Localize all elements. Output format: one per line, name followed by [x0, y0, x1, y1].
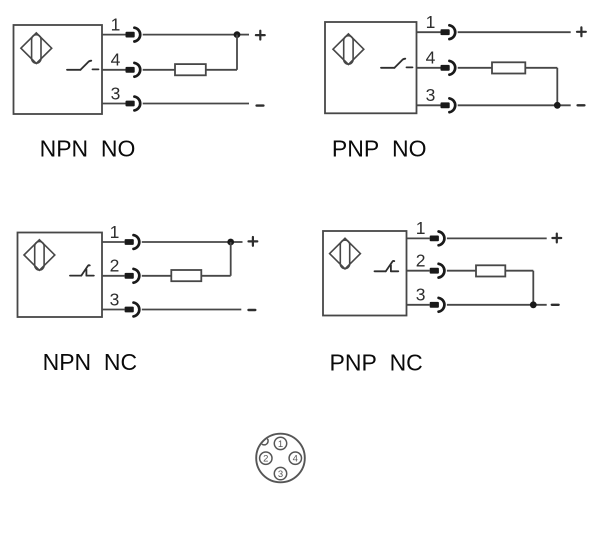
load resistor (PNP NC load)	[476, 265, 505, 276]
socket arc pin 4 (PNP NO)	[449, 61, 455, 75]
wire PNP NC load to dropper	[505, 270, 533, 272]
wire NPN NC pin3 to -	[142, 309, 242, 311]
wire PNP NO pin3 to -	[458, 104, 571, 106]
sensor box (NPN NC sensor)	[18, 233, 103, 318]
socket arc pin 2 (NPN NC)	[134, 269, 140, 283]
connector face pin 4	[289, 452, 301, 465]
svg-text:PNP NC: PNP NC	[330, 349, 423, 375]
wire PNP NO pin 3: box to plug	[417, 104, 441, 106]
svg-text:3: 3	[416, 285, 426, 305]
connector keying notch	[260, 437, 268, 445]
proximity sensing symbol of PNP NO sensor: diamond with capsule	[333, 34, 364, 65]
wire NPN NC riser to + rail	[230, 242, 232, 276]
NO switch contact of PNP NO sensor	[381, 59, 413, 68]
+ supply terminal (NPN NO)	[256, 31, 265, 40]
cable plug contact pin 3 (NPN NO)	[126, 101, 135, 107]
wire NPN NC pin 3: box to plug	[102, 309, 125, 311]
sensor box (PNP NC sensor)	[323, 231, 407, 316]
wire PNP NC pin 3: box to plug	[407, 304, 430, 306]
load resistor (NPN NO load)	[175, 64, 206, 75]
wire NPN NO pin3 to -	[143, 103, 249, 105]
wire PNP NC pin3 to -	[447, 304, 547, 306]
socket arc pin 3 (PNP NO)	[449, 98, 455, 112]
wire NPN NO pin 3: box to plug	[102, 103, 126, 105]
svg-text:2: 2	[263, 454, 268, 465]
svg-text:4: 4	[426, 48, 436, 68]
svg-text:2: 2	[416, 251, 426, 271]
svg-text:2: 2	[110, 256, 120, 276]
NO switch contact of NPN NO sensor	[67, 61, 99, 70]
wire NPN NC load to riser	[201, 275, 230, 277]
svg-text:4: 4	[111, 50, 121, 70]
NC switch contact of PNP NC sensor	[375, 261, 399, 271]
svg-text:1: 1	[110, 222, 120, 242]
cable plug contact pin 4 (PNP NO)	[441, 65, 450, 71]
+ supply terminal (NPN NC)	[249, 237, 258, 246]
NC switch contact of NPN NC sensor	[70, 265, 94, 275]
connector face pin 3	[274, 467, 286, 480]
wire NPN NO load to riser	[206, 69, 237, 71]
svg-text:3: 3	[110, 289, 120, 309]
junction dot PNP NO pin3/load	[554, 102, 561, 109]
wire NPN NC pin1 to junction	[142, 241, 231, 243]
svg-text:4: 4	[293, 454, 298, 465]
wire PNP NC pin 2: box to plug	[407, 270, 430, 272]
proximity sensing symbol of NPN NO sensor: diamond with capsule	[21, 33, 52, 64]
wire NPN NO riser to + rail	[236, 35, 238, 70]
connector face pin 2	[260, 452, 272, 465]
wire NPN NO junction to +	[237, 34, 249, 36]
cable plug contact pin 1 (PNP NC)	[430, 236, 439, 242]
wire PNP NC pin 1: box to plug	[407, 237, 430, 239]
socket arc pin 1 (PNP NO)	[449, 25, 455, 39]
wire PNP NO pin 1: box to plug	[417, 31, 441, 33]
socket arc pin 3 (NPN NO)	[134, 97, 140, 111]
svg-text:1: 1	[426, 12, 436, 32]
cable plug contact pin 1 (PNP NO)	[441, 29, 450, 35]
wire NPN NC pin 2: box to plug	[102, 275, 125, 277]
proximity sensing symbol of PNP NC sensor: diamond with capsule	[330, 238, 361, 269]
cable plug contact pin 3 (PNP NC)	[430, 302, 439, 308]
wire NPN NC junction to +	[231, 241, 243, 243]
wire NPN NC pin 1: box to plug	[102, 241, 125, 243]
cable plug contact pin 4 (NPN NO)	[126, 67, 135, 73]
junction dot NPN NO pin1/load	[234, 31, 241, 38]
- supply terminal (PNP NC)	[552, 304, 559, 306]
svg-text:1: 1	[278, 439, 283, 450]
cable plug contact pin 1 (NPN NO)	[126, 32, 135, 38]
+ supply terminal (PNP NO)	[577, 27, 586, 36]
load resistor (NPN NC load)	[171, 270, 201, 281]
+ supply terminal (PNP NC)	[552, 234, 561, 243]
socket arc pin 3 (PNP NC)	[439, 298, 445, 312]
socket arc pin 2 (PNP NC)	[439, 264, 445, 278]
sensor box (PNP NO sensor)	[325, 22, 417, 113]
connector face pin 1	[274, 437, 286, 450]
cable plug contact pin 3 (NPN NC)	[125, 307, 134, 313]
svg-text:1: 1	[416, 218, 426, 238]
wire PNP NO pin1 to +	[458, 31, 571, 33]
wire NPN NO pin1 to junction	[143, 34, 237, 36]
cable plug contact pin 2 (NPN NC)	[125, 273, 134, 279]
svg-text:NPN NC: NPN NC	[43, 349, 138, 375]
- supply terminal (NPN NO)	[257, 104, 264, 106]
wire PNP NO load to dropper	[525, 67, 557, 69]
cable plug contact pin 2 (PNP NC)	[430, 268, 439, 274]
socket arc pin 1 (PNP NC)	[439, 232, 445, 246]
load resistor (PNP NO load)	[492, 62, 525, 73]
wire PNP NC dropper to - rail	[532, 271, 534, 305]
svg-text:1: 1	[111, 14, 121, 34]
socket arc pin 1 (NPN NO)	[134, 28, 140, 42]
wire NPN NC pin2 to load	[142, 275, 172, 277]
proximity sensing symbol of NPN NC sensor: diamond with capsule	[24, 240, 55, 271]
svg-text:NPN NO: NPN NO	[40, 135, 136, 161]
junction dot NPN NC pin1/load	[227, 239, 234, 246]
socket arc pin 3 (NPN NC)	[134, 303, 140, 317]
cable plug contact pin 3 (PNP NO)	[441, 102, 450, 108]
socket arc pin 1 (NPN NC)	[134, 235, 140, 249]
wire PNP NO pin 4: box to plug	[417, 67, 441, 69]
wire NPN NO pin 4: box to plug	[102, 69, 126, 71]
cable plug contact pin 1 (NPN NC)	[125, 239, 134, 245]
sensor box (NPN NO sensor)	[14, 25, 103, 114]
svg-text:PNP NO: PNP NO	[332, 135, 427, 161]
wire PNP NO pin4 to load	[458, 67, 492, 69]
wire NPN NO pin4 to load	[143, 69, 175, 71]
socket arc pin 4 (NPN NO)	[134, 63, 140, 77]
wire PNP NC pin1 to +	[447, 237, 547, 239]
wire PNP NC pin2 to load	[447, 270, 476, 272]
svg-text:3: 3	[278, 469, 283, 480]
wire PNP NO dropper to - rail	[556, 68, 558, 106]
svg-text:3: 3	[426, 85, 436, 105]
connector face outer circle	[256, 434, 305, 483]
wire NPN NO pin 1: box to plug	[102, 34, 126, 36]
svg-text:3: 3	[111, 83, 121, 103]
- supply terminal (PNP NO)	[578, 104, 585, 106]
junction dot PNP NC pin3/load	[530, 301, 537, 308]
- supply terminal (NPN NC)	[249, 309, 256, 311]
